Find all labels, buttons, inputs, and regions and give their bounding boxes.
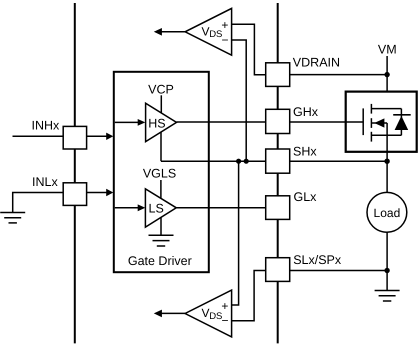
ground at load [375, 291, 400, 302]
svg-text:INHx: INHx [32, 119, 61, 133]
op-amp HS buffer [146, 103, 177, 141]
svg-text:VM: VM [378, 43, 397, 57]
op-amp top VDS comparator [185, 8, 232, 55]
svg-text:SHx: SHx [293, 144, 317, 158]
wire HS output to GHx [177, 121, 266, 123]
svg-text:Load: Load [374, 206, 401, 220]
diode D1 body diode [393, 109, 411, 136]
svg-text:−: − [221, 33, 228, 47]
svg-text:VCP: VCP [148, 82, 174, 96]
transistor Q1 body arrow [374, 118, 384, 127]
svg-text:−: − [221, 314, 228, 328]
wire LS input (arrow) [115, 207, 139, 209]
wire bottom VDS minus input to SLx net [232, 271, 266, 321]
node bottom VDS plus junction dot [236, 159, 241, 164]
svg-text:VDRAIN: VDRAIN [293, 56, 340, 70]
pin GLx box [266, 196, 290, 220]
svg-text:SLx/SPx: SLx/SPx [293, 253, 342, 267]
wire MOSFET source to SHx / load [386, 135, 388, 192]
pin VDRAIN box [266, 63, 290, 87]
wire right driver bus [277, 3, 279, 343]
svg-text:INLx: INLx [32, 175, 58, 189]
op-amp LS buffer [145, 189, 176, 227]
wire SHx net horizontal [161, 160, 266, 162]
wire LS output to GLx [176, 207, 266, 209]
pin SHx box [266, 149, 290, 173]
label bottom VDS [202, 299, 229, 328]
wire ground stub at load [386, 271, 388, 291]
svg-text:+: + [221, 299, 228, 313]
wire top VDS plus input to VDRAIN [232, 24, 266, 74]
wire SHx to source [290, 160, 387, 162]
node SHx junction dot [384, 159, 389, 164]
transistor Q1 MOSFET symbol [363, 104, 401, 142]
wire VCP stub [160, 95, 162, 113]
wire top VDS minus input to SHx net [232, 40, 247, 161]
pin SLx/SPx box [266, 258, 290, 282]
wire VGLS stub [160, 180, 162, 198]
load L1 circle [367, 192, 407, 232]
wire HS source return to SHx net [160, 132, 162, 161]
wire INLx input [13, 193, 64, 213]
ground at LS [149, 235, 174, 246]
wire left digital bus [74, 3, 76, 343]
wire INLx box to gate driver (arrow) [86, 192, 107, 194]
wire bottom VDS plus input to SHx net [232, 161, 239, 305]
wire SLx/SPx to load bottom [290, 270, 387, 272]
svg-text:VGLS: VGLS [143, 167, 176, 181]
wire top VDS comparator output (arrow left) [160, 31, 185, 33]
wire HS input (arrow) [115, 121, 139, 123]
gate driver box [114, 72, 209, 272]
svg-text:GLx: GLx [294, 190, 318, 204]
pin GHx box [266, 109, 290, 133]
wire VM vertical / MOSFET drain [386, 56, 388, 109]
ground at INLx [0, 213, 25, 223]
pin INLx box [63, 183, 86, 206]
svg-text:HS: HS [148, 116, 165, 130]
wire INHx input [13, 135, 64, 137]
wire GHx gate lead [290, 121, 364, 123]
svg-text:Gate Driver: Gate Driver [128, 254, 192, 268]
node top VDS minus junction dot [244, 159, 249, 164]
pin INHx box [63, 126, 86, 149]
wire VDRAIN to VM node [290, 74, 387, 76]
label top VDS [202, 18, 229, 47]
svg-text:GHx: GHx [293, 105, 319, 119]
svg-text:+: + [221, 18, 228, 32]
wire bottom VDS comparator output (arrow left) [160, 312, 185, 314]
transistor Q1 outline box [346, 92, 417, 152]
node SLx junction dot [384, 268, 389, 273]
wire LS ground stub [160, 217, 162, 235]
wire load to SLx node [386, 232, 388, 270]
wire INHx box to gate driver (arrow) [86, 135, 107, 137]
op-amp bottom VDS comparator [185, 290, 232, 337]
node VM junction dot [384, 72, 389, 77]
svg-text:LS: LS [149, 202, 164, 216]
